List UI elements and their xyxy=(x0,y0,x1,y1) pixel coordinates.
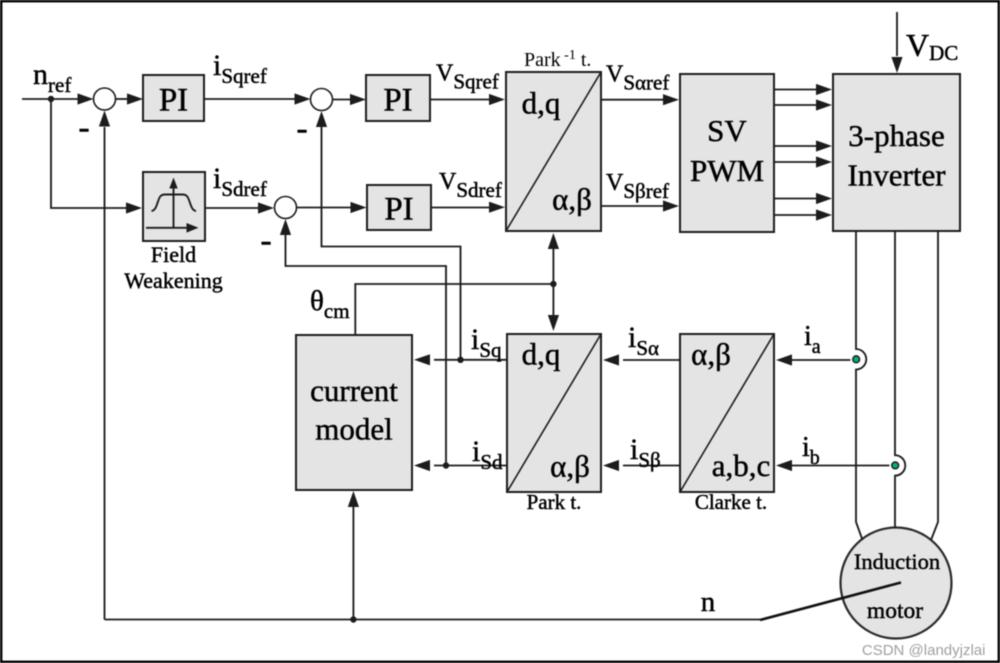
svg-text:Induction: Induction xyxy=(854,549,940,574)
svg-text:Weakening: Weakening xyxy=(124,268,222,293)
svg-text:d,q: d,q xyxy=(522,337,561,372)
svg-text:α,β: α,β xyxy=(552,182,592,217)
svg-text:a,b,c: a,b,c xyxy=(712,448,771,483)
svg-text:d,q: d,q xyxy=(522,86,561,121)
svg-text:SV: SV xyxy=(707,113,747,148)
svg-text:PWM: PWM xyxy=(690,153,764,188)
svg-text:Clarke t.: Clarke t. xyxy=(695,490,767,514)
svg-text:PI: PI xyxy=(159,83,188,119)
svg-text:PI: PI xyxy=(383,83,412,119)
svg-text:-: - xyxy=(260,222,271,259)
svg-text:Inverter: Inverter xyxy=(847,158,946,193)
svg-text:Park t.: Park t. xyxy=(527,490,582,514)
svg-text:current: current xyxy=(310,373,398,408)
svg-text:α,β: α,β xyxy=(691,337,731,372)
svg-text:α,β: α,β xyxy=(550,449,590,484)
svg-text:PI: PI xyxy=(384,192,413,228)
svg-text:-: - xyxy=(78,109,89,146)
svg-text:motor: motor xyxy=(867,598,923,624)
svg-text:CSDN @landyjzlai: CSDN @landyjzlai xyxy=(862,642,986,659)
svg-text:3-phase: 3-phase xyxy=(848,118,944,153)
svg-text:Park -1 t.: Park -1 t. xyxy=(524,48,591,71)
svg-text:model: model xyxy=(315,412,393,447)
svg-text:-: - xyxy=(296,110,307,147)
svg-text:n: n xyxy=(701,586,716,618)
svg-text:Field: Field xyxy=(151,242,196,267)
